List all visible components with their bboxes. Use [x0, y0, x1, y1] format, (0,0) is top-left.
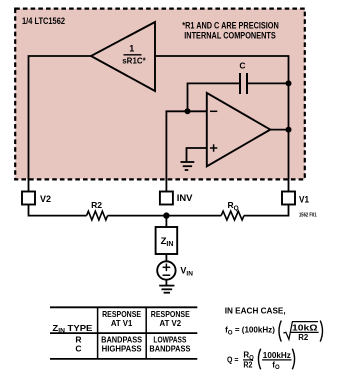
svg-text:AT V1: AT V1 [111, 318, 133, 328]
formula fO = (100kHz)sqrt(10kOhm/R2) [225, 321, 322, 342]
wire: RQ to V1 [244, 205, 289, 216]
label 1/4 LTC1562 [22, 16, 65, 27]
svg-text:10kΩ: 10kΩ [292, 323, 318, 332]
heading IN EACH CASE, [225, 305, 286, 315]
impedance ZIN [156, 227, 178, 254]
svg-text:VIN: VIN [180, 265, 193, 277]
resistor R2 [87, 200, 108, 220]
node INV [160, 192, 193, 205]
label VIN [180, 265, 193, 277]
svg-text:R2: R2 [91, 200, 102, 210]
svg-text:*R1 AND C ARE PRECISION: *R1 AND C ARE PRECISION [182, 21, 279, 31]
wire: ZIN to VIN source [165, 254, 167, 261]
table: response types [50, 307, 197, 359]
node V2 [22, 192, 51, 205]
svg-text:INV: INV [177, 193, 193, 204]
wire: integrator output to V2 node [29, 56, 92, 192]
svg-text:HIGHPASS: HIGHPASS [102, 344, 142, 354]
svg-text:sR1C*: sR1C* [122, 56, 146, 66]
svg-text:fO: fO [272, 360, 280, 371]
svg-text:C: C [75, 344, 81, 354]
node V1 [282, 192, 309, 205]
wire: R2 to INV junction to RQ [108, 215, 222, 217]
svg-text:R2: R2 [298, 333, 309, 342]
wire: op-amp output to V1 rail [270, 129, 288, 131]
svg-text:V1: V1 [299, 194, 309, 204]
svg-text:fO = (100kHz): fO = (100kHz) [225, 325, 275, 337]
capacitor C [240, 73, 289, 94]
integrator amplifier U1 (1/sR1C block) [91, 22, 155, 91]
wire: junction to ZIN [165, 216, 167, 227]
junction: op-amp output on V1 rail [286, 127, 292, 133]
svg-text:1: 1 [129, 43, 134, 53]
svg-text:Q =: Q = [227, 354, 239, 364]
shaded dashed block 1/4 LTC1562 [15, 9, 305, 180]
ground (VIN source) [159, 286, 174, 293]
svg-text:R2: R2 [243, 361, 252, 370]
wire: VIN to ground [165, 280, 167, 286]
svg-text:ZIN TYPE: ZIN TYPE [52, 323, 92, 335]
junction: C feedback on V1 rail [286, 80, 292, 86]
value label C [239, 60, 245, 70]
svg-text:INTERNAL COMPONENTS: INTERNAL COMPONENTS [184, 30, 276, 40]
wire: inverting input to INV node [166, 111, 206, 191]
svg-text:BANDPASS: BANDPASS [149, 344, 190, 354]
resistor RQ [221, 200, 244, 220]
wire: V1 rail to integrator input [155, 56, 289, 192]
svg-text:1/4 LTC1562: 1/4 LTC1562 [22, 16, 65, 27]
svg-text:AT V2: AT V2 [160, 318, 182, 328]
svg-text:100kHz: 100kHz [263, 351, 291, 360]
value label 1/sR1C* [122, 43, 146, 65]
op-amp U2 [207, 93, 270, 166]
voltage source VIN [157, 261, 175, 279]
wire: capacitor C to inverting input [188, 83, 241, 111]
svg-text:1562 F01: 1562 F01 [299, 213, 317, 219]
wire: V2 to R2 [29, 205, 87, 216]
svg-text:IN EACH CASE,: IN EACH CASE, [225, 305, 286, 315]
figure number 1562 F01 [299, 213, 317, 219]
svg-text:RQ: RQ [228, 200, 239, 212]
junction: feedback joins inverting input [185, 108, 191, 114]
formula Q = RQ/R2 (100kHz/fO) [227, 349, 295, 371]
svg-text:V2: V2 [40, 194, 51, 204]
svg-text:C: C [239, 60, 245, 70]
junction: INV node / ZIN [163, 212, 169, 218]
ground (op-amp non-inverting input) [181, 162, 195, 170]
wire: non-inverting input to ground [187, 148, 207, 162]
note: R1 and C are precision internal components [182, 21, 279, 41]
